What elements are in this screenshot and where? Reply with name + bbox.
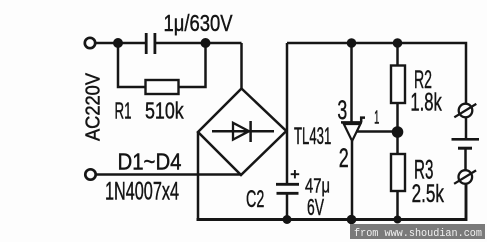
svg-text:R1: R1 (115, 98, 132, 124)
svg-text:AC220V: AC220V (83, 72, 105, 141)
svg-text:C2: C2 (246, 186, 264, 213)
svg-text:6V: 6V (307, 194, 324, 220)
svg-text:2: 2 (339, 143, 349, 173)
svg-text:1N4007x4: 1N4007x4 (105, 178, 179, 206)
svg-text:510k: 510k (145, 98, 184, 124)
svg-text:1: 1 (374, 107, 379, 128)
svg-text:D1~D4: D1~D4 (118, 149, 182, 175)
svg-text:1μ/630V: 1μ/630V (164, 10, 233, 36)
svg-text:TL431: TL431 (294, 124, 331, 150)
svg-text:from www.shoudian.com: from www.shoudian.com (354, 228, 482, 240)
svg-text:1.8k: 1.8k (410, 89, 442, 117)
svg-text:2.5k: 2.5k (412, 180, 445, 208)
svg-text:3: 3 (337, 95, 347, 125)
